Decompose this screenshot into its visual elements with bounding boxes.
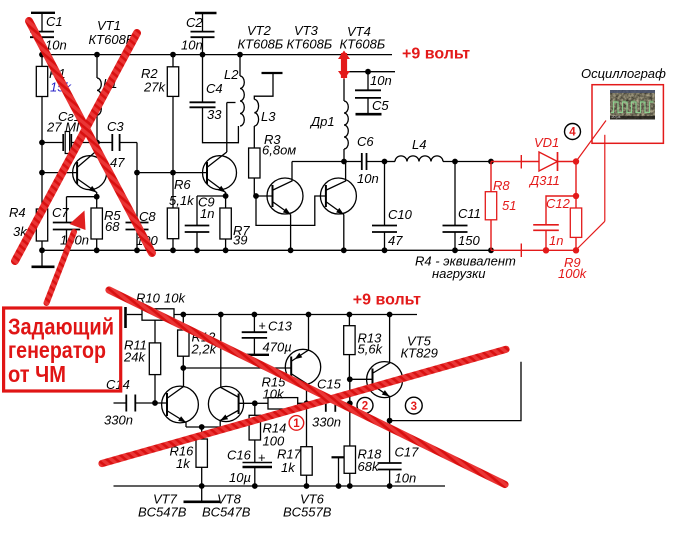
svg-text:5,1k: 5,1k (169, 193, 195, 208)
svg-text:от ЧМ: от ЧМ (8, 361, 66, 387)
svg-text:нагрузки: нагрузки (432, 266, 486, 281)
svg-text:КТ608Б: КТ608Б (287, 37, 333, 52)
svg-text:C3: C3 (107, 119, 124, 134)
svg-text:BC547B: BC547B (138, 505, 187, 520)
svg-text:C2: C2 (186, 15, 203, 30)
svg-text:L2: L2 (224, 67, 239, 82)
svg-text:R6: R6 (174, 177, 191, 192)
svg-text:1n: 1n (549, 233, 563, 248)
svg-text:20 µs: 20 µs (612, 115, 621, 119)
svg-text:51: 51 (502, 198, 516, 213)
svg-text:генератор: генератор (8, 337, 106, 363)
svg-text:C11: C11 (458, 206, 481, 221)
svg-text:C1: C1 (46, 14, 63, 29)
svg-text:R4: R4 (9, 205, 26, 220)
svg-text:R8: R8 (493, 178, 510, 193)
svg-text:Задающий: Задающий (8, 313, 114, 339)
svg-text:47: 47 (110, 155, 125, 170)
svg-text:+: + (259, 319, 266, 333)
svg-text:1k: 1k (176, 456, 191, 471)
svg-text:10n: 10n (357, 171, 379, 186)
svg-text:10n: 10n (181, 38, 203, 53)
svg-text:L3: L3 (261, 109, 276, 124)
svg-text:1: 1 (293, 418, 300, 430)
svg-text:330n: 330n (104, 413, 133, 428)
svg-text:C16: C16 (227, 448, 252, 463)
svg-text:C5: C5 (372, 98, 389, 113)
svg-text:C10: C10 (388, 207, 413, 222)
svg-text:+9 вольт: +9 вольт (402, 46, 470, 63)
svg-text:10n: 10n (395, 471, 417, 486)
svg-text:+9 вольт: +9 вольт (353, 292, 421, 309)
svg-text:Осциллограф: Осциллограф (581, 66, 666, 81)
svg-text:Др1: Др1 (309, 114, 335, 129)
svg-text:C7: C7 (52, 205, 69, 220)
svg-text:33: 33 (207, 107, 222, 122)
svg-text:470µ: 470µ (263, 340, 292, 355)
svg-text:24k: 24k (123, 350, 146, 365)
svg-text:КТ829: КТ829 (401, 346, 438, 361)
svg-text:10k: 10k (164, 291, 186, 306)
svg-text:C6: C6 (357, 134, 374, 149)
svg-text:1k: 1k (281, 460, 296, 475)
svg-text:КТ608Б: КТ608Б (238, 37, 284, 52)
svg-text:100k: 100k (558, 266, 588, 281)
svg-text:330n: 330n (312, 415, 341, 430)
svg-text:VT1: VT1 (97, 18, 121, 33)
svg-text:C4: C4 (206, 81, 223, 96)
svg-text:1n: 1n (200, 206, 214, 221)
svg-text:5,6k: 5,6k (358, 342, 384, 357)
svg-text:BC557B: BC557B (283, 505, 332, 520)
svg-text:10µ: 10µ (229, 470, 251, 485)
svg-text:C8: C8 (139, 209, 156, 224)
svg-text:C17: C17 (395, 445, 420, 460)
svg-text:3: 3 (411, 401, 417, 413)
svg-text:27k: 27k (143, 80, 166, 95)
svg-text:150: 150 (458, 233, 480, 248)
svg-text:39: 39 (233, 233, 247, 248)
svg-text:BC547B: BC547B (202, 505, 251, 520)
svg-text:68k: 68k (358, 459, 380, 474)
svg-text:C13: C13 (268, 319, 293, 334)
svg-text:47: 47 (388, 233, 403, 248)
svg-text:Д311: Д311 (528, 173, 560, 188)
svg-text:4: 4 (569, 127, 576, 139)
svg-text:10k: 10k (263, 387, 285, 402)
svg-text:C12: C12 (546, 196, 571, 211)
svg-text:68: 68 (105, 219, 120, 234)
svg-text:C15: C15 (317, 377, 342, 392)
svg-text:VD1: VD1 (534, 135, 559, 150)
svg-text:6,8ом: 6,8ом (262, 143, 296, 158)
svg-text:10n: 10n (370, 73, 392, 88)
svg-text:L4: L4 (412, 137, 426, 152)
svg-text:КТ608Б: КТ608Б (340, 37, 386, 52)
svg-text:+: + (258, 450, 266, 465)
